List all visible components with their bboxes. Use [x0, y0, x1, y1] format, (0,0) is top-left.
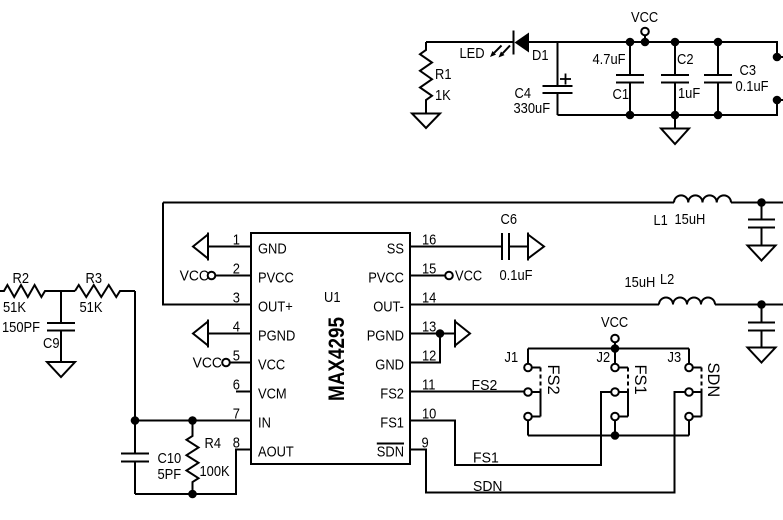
svg-text:51K: 51K — [80, 299, 103, 316]
pin 9 wire SDN to jumper J3 — [410, 392, 685, 493]
pin 11 wire FS2 to jumper J1 — [410, 391, 524, 393]
pin 2 wire — [215, 275, 251, 277]
pin 13 wire PGND — [410, 333, 455, 335]
node top-right upper — [773, 53, 782, 62]
svg-text:GND: GND — [258, 241, 287, 258]
svg-text:J1: J1 — [505, 349, 519, 366]
svg-text:1uF: 1uF — [678, 85, 700, 102]
svg-text:15uH: 15uH — [625, 274, 656, 291]
svg-text:VCC: VCC — [455, 268, 482, 285]
wire L1 to right edge — [731, 202, 783, 204]
pin 16 wire SS — [410, 246, 502, 248]
svg-text:C6: C6 — [501, 211, 518, 228]
pin 6 stub VCM — [236, 391, 251, 393]
pin 5 wire — [230, 362, 251, 364]
svg-text:15uH: 15uH — [675, 211, 706, 228]
node C2 bottom — [671, 111, 680, 120]
svg-text:U1: U1 — [324, 289, 341, 306]
pin 12 wire GND up to pin 13 node — [410, 334, 440, 363]
wire R3 down to IN node — [134, 291, 136, 421]
svg-text:L1: L1 — [654, 212, 668, 229]
jumper VCC rail — [528, 348, 689, 350]
svg-text:1K: 1K — [435, 87, 451, 104]
jumper J1 — [505, 349, 564, 436]
capacitor C4 330uF — [514, 42, 573, 117]
svg-text:SDN: SDN — [704, 363, 723, 398]
capacitor C9 150PF — [2, 291, 75, 362]
svg-text:OUT-: OUT- — [373, 299, 404, 316]
svg-text:R4: R4 — [205, 435, 222, 452]
svg-text:FS1: FS1 — [380, 415, 404, 432]
svg-text:VCC: VCC — [631, 9, 658, 26]
svg-text:L2: L2 — [660, 271, 674, 288]
svg-text:PVCC: PVCC — [368, 270, 404, 287]
svg-text:FS2: FS2 — [544, 365, 563, 395]
svg-text:SDN: SDN — [473, 478, 503, 495]
jumper bottom rail — [528, 435, 689, 437]
svg-text:PGND: PGND — [258, 328, 295, 345]
off-page arrow at pin 1 — [193, 233, 208, 261]
svg-text:R1: R1 — [435, 66, 452, 83]
svg-text:FS2: FS2 — [472, 377, 498, 394]
pin 15 wire — [410, 275, 445, 277]
capacitor C10 5PF — [121, 421, 181, 495]
node VCC on rail — [641, 38, 650, 47]
svg-text:7: 7 — [233, 406, 240, 423]
resistor R3 — [75, 270, 135, 316]
svg-text:C10: C10 — [158, 450, 182, 467]
svg-text:IN: IN — [258, 415, 271, 432]
pin 3 wire OUT+ up to rail — [163, 203, 251, 305]
node bottom-right of capacitor bank — [773, 96, 782, 105]
svg-text:C3: C3 — [740, 62, 757, 79]
pin 14 wire OUT- to inductor L2 — [410, 304, 659, 306]
svg-text:SS: SS — [387, 241, 404, 258]
svg-text:R2: R2 — [13, 270, 30, 287]
svg-text:0.1uF: 0.1uF — [500, 267, 533, 284]
svg-text:R3: R3 — [86, 270, 103, 287]
svg-text:MAX4295: MAX4295 — [324, 317, 349, 401]
wire LED anode to top-right corner — [529, 42, 777, 57]
svg-text:VCM: VCM — [258, 386, 287, 403]
ground below capacitor bank — [661, 115, 689, 144]
svg-text:C9: C9 — [43, 335, 60, 352]
capacitor C2 1uF — [661, 42, 700, 115]
svg-text:8: 8 — [233, 435, 240, 452]
resistor R4 100K — [187, 421, 230, 495]
LED diode D1 — [460, 31, 549, 65]
svg-text:AOUT: AOUT — [258, 444, 294, 461]
pin 1 wire — [208, 246, 251, 248]
svg-text:LED: LED — [460, 45, 485, 62]
svg-text:4.7uF: 4.7uF — [593, 51, 626, 68]
ground below C9 — [47, 362, 75, 377]
wire L2 to right edge — [715, 304, 783, 306]
resistor R1 — [420, 42, 452, 114]
output capacitor at L1 — [748, 203, 775, 246]
wire R1 top to LED cathode — [426, 41, 514, 43]
pin 10 wire FS1 to jumper J2 — [410, 392, 611, 465]
resistor R2 — [0, 270, 75, 316]
svg-text:FS1: FS1 — [631, 365, 650, 395]
node pin 13 — [436, 329, 445, 338]
node J2 bottom on rail — [611, 431, 620, 440]
svg-text:51K: 51K — [3, 299, 26, 316]
node IN junction at C10 — [131, 416, 140, 425]
IC U1 MAX4295 body — [251, 233, 410, 464]
svg-text:100K: 100K — [200, 463, 230, 480]
svg-text:FS2: FS2 — [380, 386, 404, 403]
svg-text:GND: GND — [375, 357, 404, 374]
node C2 top — [671, 38, 680, 47]
svg-text:5PF: 5PF — [158, 466, 182, 483]
off-page arrow at pin 16 — [528, 233, 544, 261]
node L2 output — [757, 300, 766, 309]
node R4 top — [188, 416, 197, 425]
VCC terminal at pin 15 — [445, 268, 482, 285]
jumper J2 — [597, 349, 651, 436]
VCC terminal at pin 5 — [193, 355, 230, 372]
svg-text:PVCC: PVCC — [258, 270, 294, 287]
node C1 bottom — [626, 111, 635, 120]
wire feedback rail to pin 8 — [135, 450, 251, 495]
jumper J3 — [668, 349, 724, 436]
wire stub off right edge upper — [777, 56, 783, 58]
svg-text:330uF: 330uF — [514, 100, 551, 117]
node C1 top — [626, 38, 635, 47]
svg-text:J3: J3 — [668, 349, 682, 366]
pin 4 wire — [208, 333, 251, 335]
VCC terminal at jumpers — [601, 314, 628, 349]
off-page arrow at pin 4 — [193, 320, 208, 348]
svg-text:PGND: PGND — [367, 328, 404, 345]
capacitor C6 0.1uF — [500, 211, 533, 284]
SDN overline — [377, 443, 404, 445]
inductor L2 15uH — [625, 271, 716, 305]
svg-text:150PF: 150PF — [2, 319, 40, 336]
bottom rail of capacitor bank — [558, 100, 778, 115]
output capacitor at L2 — [748, 305, 775, 348]
node C3 top — [714, 38, 723, 47]
svg-text:VCC: VCC — [601, 314, 628, 331]
svg-text:VCC: VCC — [258, 357, 285, 374]
ground below L2 output capacitor — [748, 348, 776, 363]
svg-text:J2: J2 — [597, 349, 611, 366]
inductor L1 15uH — [654, 195, 732, 229]
svg-text:VCC: VCC — [180, 268, 210, 285]
OUT+ rail to inductor L1 — [163, 202, 674, 204]
svg-text:VCC: VCC — [193, 355, 223, 372]
wire stub off right edge lower — [777, 99, 783, 101]
svg-text:D1: D1 — [532, 47, 549, 64]
ground below L1 output capacitor — [748, 246, 776, 261]
VCC power terminal top — [631, 9, 658, 42]
node L1 output — [757, 198, 766, 207]
capacitor C3 0.1uF — [704, 42, 769, 115]
svg-text:OUT+: OUT+ — [258, 299, 293, 316]
node VCC jumper rail — [611, 344, 620, 353]
svg-text:SDN: SDN — [377, 444, 404, 461]
ground below R1 — [412, 114, 440, 129]
capacitor C1 4.7uF — [593, 42, 645, 115]
off-page arrow at pin 13 — [455, 320, 470, 348]
svg-text:C2: C2 — [677, 51, 694, 68]
svg-text:0.1uF: 0.1uF — [736, 78, 769, 95]
svg-text:C1: C1 — [613, 86, 630, 103]
node R4 bottom — [188, 490, 197, 499]
svg-text:FS1: FS1 — [473, 450, 499, 467]
VCC terminal at pin 2 — [180, 268, 216, 285]
wire IN node to pin 7 — [135, 420, 251, 422]
node C3 bottom — [714, 111, 723, 120]
